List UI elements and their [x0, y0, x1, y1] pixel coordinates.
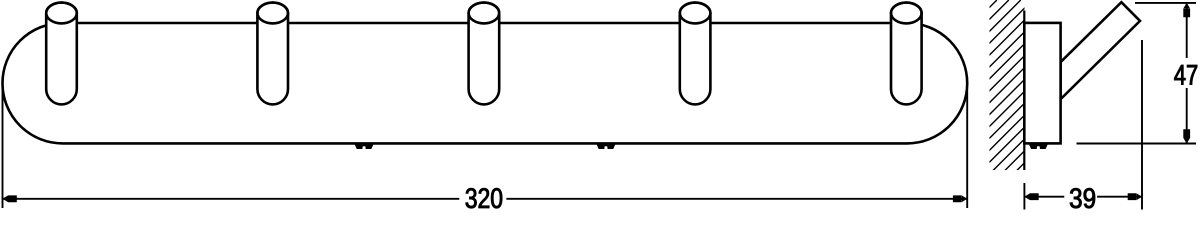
dimension line 320 right segment — [506, 198, 967, 200]
wall hatching (side view) — [787, 0, 1187, 210]
hook peg 1 (front view) — [46, 3, 77, 105]
hook arm (side view, 45 deg cylinder) — [1061, 2, 1140, 99]
dimension line 39 right segment — [1097, 196, 1142, 198]
rail body (front view pill outline) — [2, 23, 967, 143]
hook peg 3 (front view) — [469, 3, 500, 105]
arrowhead right (39) — [1128, 193, 1142, 200]
extension line top (47 dim) — [1135, 2, 1196, 4]
arrowhead right (320) — [953, 195, 967, 202]
dimension line 47 upper segment — [1186, 3, 1188, 58]
arrowhead down (47) — [1183, 129, 1190, 143]
wall face line (side view) — [1023, 11, 1025, 171]
hook peg 5 (front view) — [891, 3, 922, 105]
dimension line 320 left segment — [3, 198, 460, 200]
extension line bottom (47 dim) — [1077, 143, 1197, 145]
dimension text 320 — [466, 188, 502, 208]
mounting foot left (front view) — [355, 144, 374, 149]
mounting foot (side view) — [1029, 144, 1048, 149]
dimension text 39 — [1070, 188, 1095, 208]
dimension line 39 left segment — [1024, 196, 1064, 198]
dimension line 47 lower segment — [1186, 88, 1188, 144]
arrowhead left (39) — [1024, 193, 1038, 200]
wall plate (side view) — [1024, 23, 1060, 143]
extension line left (320 dim) — [2, 88, 4, 208]
arrowhead up (47) — [1183, 3, 1190, 17]
hook peg 4 (front view) — [680, 3, 711, 105]
extension line left (39 dim) — [1023, 183, 1025, 210]
dimension text 47 — [1174, 65, 1197, 84]
extension line right (320 dim) — [966, 90, 968, 208]
arrowhead left (320) — [3, 195, 17, 202]
extension line right (39 dim) — [1141, 40, 1143, 210]
hook peg 2 (front view) — [257, 3, 288, 105]
mounting foot right (front view) — [596, 144, 615, 149]
